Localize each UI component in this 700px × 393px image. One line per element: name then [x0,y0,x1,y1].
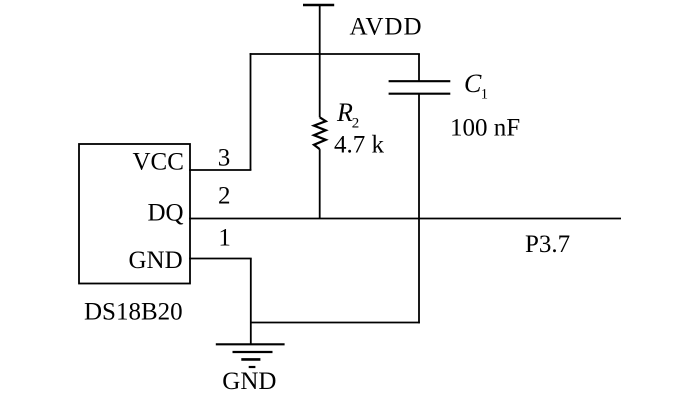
svg-text:2: 2 [218,183,231,210]
component box U1 DS18B20 [79,144,190,284]
svg-text:GND: GND [129,247,183,274]
svg-text:DS18B20: DS18B20 [84,299,183,326]
svg-text:GND: GND [222,368,276,393]
svg-text:P3.7: P3.7 [525,231,570,258]
svg-text:C: C [464,69,482,98]
svg-text:3: 3 [218,144,231,171]
wire: pin 3 (VCC) [189,169,251,171]
svg-text:2: 2 [352,115,360,131]
wire: bottom ground rail [251,322,420,324]
ground [216,344,285,367]
wire: AVDD rail horizontal [250,53,420,55]
svg-text:4.7 k: 4.7 k [334,132,385,159]
capacitor C1 [389,54,451,323]
wire: riser from pin 3 up to AVDD rail [250,53,252,170]
wire: ground drop from pin 1 [250,259,252,345]
wire: pin 2 (DQ) to P3.7 [189,218,621,220]
svg-text:DQ: DQ [148,200,184,227]
power symbol AVDD [303,5,334,55]
svg-text:1: 1 [481,87,488,103]
svg-text:R: R [336,98,353,127]
svg-text:VCC: VCC [133,149,184,176]
resistor R2 [314,54,326,219]
svg-text:1: 1 [218,225,231,252]
wire: pin 1 (GND) [189,258,252,260]
svg-text:AVDD: AVDD [350,14,423,41]
svg-text:100 nF: 100 nF [450,114,520,141]
